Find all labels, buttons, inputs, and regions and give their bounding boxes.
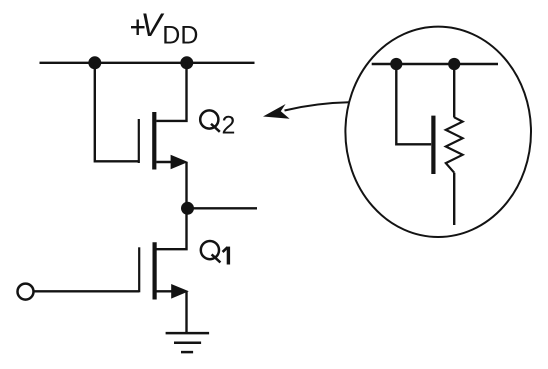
- wire output node to Q1 drain: [157, 208, 187, 249]
- transistor Q1 source lead: [157, 290, 175, 292]
- wire bubble rail: [372, 63, 498, 65]
- transistor Q2 source lead: [156, 161, 174, 163]
- junction dot VDD-gate: [88, 56, 101, 69]
- wire below resistor: [453, 173, 455, 225]
- transistor Q1 channel bar: [153, 242, 157, 299]
- wire Q2 source to output node: [185, 162, 187, 208]
- transistor Q2 source arrowhead: [171, 155, 188, 170]
- svg-text:V: V: [141, 7, 165, 43]
- transistor Q2 gate line: [138, 119, 140, 163]
- net +VDD label: [141, 7, 199, 49]
- callout arrowhead: [263, 104, 290, 119]
- wire bubble rail to resistor: [453, 64, 455, 118]
- junction dot bubble-resistor: [448, 58, 460, 70]
- ground: [166, 333, 210, 352]
- label Q1: [201, 241, 229, 265]
- wire output: [188, 207, 258, 209]
- junction dot VDD-drain: [180, 56, 193, 69]
- resistor zigzag: [446, 117, 463, 172]
- transistor Q1 gate line: [138, 247, 140, 292]
- transistor Q1 source arrowhead: [171, 284, 189, 299]
- zoom bubble ellipse: [345, 27, 531, 237]
- wire input to Q1 gate: [34, 290, 140, 292]
- junction dot output node: [181, 202, 194, 215]
- label Q2: [200, 110, 235, 139]
- wire VDD to Q2 gate: [95, 63, 138, 162]
- wire bubble rail to gate bar: [396, 64, 431, 144]
- wire Q1 source to ground: [185, 291, 187, 333]
- svg-text:2: 2: [222, 112, 236, 140]
- junction dot bubble-gate: [390, 58, 402, 70]
- input terminal circle: [18, 284, 34, 300]
- transistor Q2 channel bar: [152, 112, 156, 170]
- wire VDD rail: [40, 62, 255, 64]
- svg-text:DD: DD: [162, 21, 198, 49]
- wire Q2 drain to VDD: [156, 63, 186, 121]
- callout arrow tail: [285, 102, 350, 110]
- bubble MOS gate bar: [431, 116, 435, 174]
- net +VDD label plus sign: [131, 26, 145, 28]
